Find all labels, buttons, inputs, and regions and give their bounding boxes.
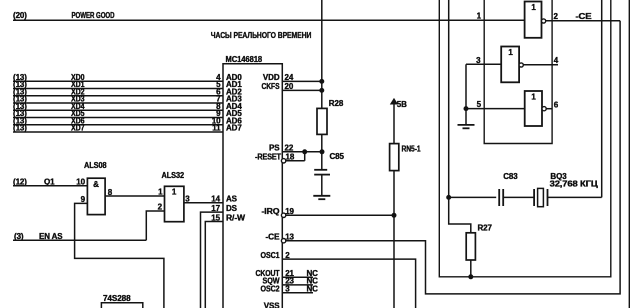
wire XD7 to U1 pin xyxy=(13,131,223,133)
junction PS/-RESET xyxy=(303,150,307,154)
svg-text:PS: PS xyxy=(269,144,280,153)
wire C83 to BQ3 xyxy=(503,196,534,198)
wire R/-W pin 15 from bottom xyxy=(205,222,223,308)
inversion bubble -CE xyxy=(281,239,285,243)
wire XD3 to U1 pin xyxy=(13,102,223,104)
wire CKOUT pin 21 NC xyxy=(282,276,313,278)
wire U2.1 output -CE xyxy=(546,20,620,22)
svg-text:ЧАСЫ РЕАЛЬНОГО ВРЕМЕНИ: ЧАСЫ РЕАЛЬНОГО ВРЕМЕНИ xyxy=(211,30,311,40)
wire OSC1 pin 2 xyxy=(282,259,415,308)
wire -RESET pin 18 xyxy=(286,160,305,162)
svg-text:-CE: -CE xyxy=(576,12,593,21)
svg-text:OSC2: OSC2 xyxy=(261,285,281,294)
svg-text:1: 1 xyxy=(531,93,536,102)
svg-text:OSC1: OSC1 xyxy=(261,251,281,260)
inverter group box xyxy=(484,0,552,144)
junction R27/bottom rail xyxy=(469,275,473,279)
wire PS pin 22 to R28 bottom xyxy=(282,151,322,153)
svg-text:32,768 КГЦ: 32,768 КГЦ xyxy=(550,180,598,189)
wire XD4 to U1 pin xyxy=(13,109,223,111)
wire R27 to inner box bottom xyxy=(470,260,472,277)
wire XD2 to U1 pin xyxy=(13,95,223,97)
inversion bubble U2.3 xyxy=(542,107,546,111)
svg-text:RN5-1: RN5-1 xyxy=(402,144,422,153)
wire crystal net vertical from top xyxy=(448,0,450,197)
svg-text:-RESET: -RESET xyxy=(255,153,281,162)
inversion bubble -RESET xyxy=(281,159,285,163)
svg-text:AS: AS xyxy=(226,195,238,204)
wire pin3 down to pin5 xyxy=(465,64,467,108)
svg-text:MC146818: MC146818 xyxy=(226,55,263,64)
wire C85 to ground xyxy=(321,175,323,196)
svg-text:(20): (20) xyxy=(13,11,27,20)
wire ALS08 pin 9 stair to bottom xyxy=(75,203,164,308)
wire -IRQ pin 19 to RN5-1 xyxy=(286,214,394,216)
inversion bubble U2.2 xyxy=(519,63,523,67)
wire junction to ground xyxy=(465,109,467,125)
svg-text:ALS32: ALS32 xyxy=(162,171,185,180)
wire -CE net pin13 to inverter output xyxy=(286,21,620,294)
wire RN5-1 down past -IRQ junction xyxy=(393,171,395,308)
inverter U2.1 xyxy=(525,2,542,38)
svg-text:1: 1 xyxy=(508,48,513,57)
wire U2.3 output pin 6 xyxy=(546,108,552,110)
ground under C85 xyxy=(321,194,323,197)
wire VDD pin 24 xyxy=(282,80,322,82)
wire XD5 to U1 pin xyxy=(13,117,223,119)
wire EN AS xyxy=(13,239,146,241)
dashed-module inner box (oscillator block) xyxy=(439,0,611,277)
svg-text:6: 6 xyxy=(554,100,559,109)
wire U2.2 input pin 3 xyxy=(466,63,501,65)
wire XD0 to U1 pin xyxy=(13,80,223,82)
wire crystal right vertical from top xyxy=(601,0,603,197)
wire R28 to C85 xyxy=(321,134,323,169)
svg-text:DS: DS xyxy=(226,204,238,213)
resistor R28 xyxy=(317,108,327,134)
wire DS pin 17 from bottom xyxy=(201,212,224,308)
IC 74S288 body (cut off) xyxy=(101,303,142,308)
OR gate D2 ALS32 xyxy=(165,186,184,221)
outer frame right vertical xyxy=(628,0,630,308)
wire CKFS pin 20 xyxy=(282,89,322,91)
wire XD1 to U1 pin xyxy=(13,88,223,90)
inversion bubble -IRQ xyxy=(281,213,285,217)
wire XD6 to U1 pin xyxy=(13,124,223,126)
wire +5B to RN5-1 xyxy=(393,100,395,144)
inversion bubble U2.1 xyxy=(542,19,546,23)
inverter U2.3 xyxy=(525,91,542,126)
junction CKFS/R28 net xyxy=(320,88,324,92)
svg-text:1: 1 xyxy=(172,188,177,197)
ground at inverter inputs xyxy=(465,123,467,126)
svg-text:74S288: 74S288 xyxy=(103,294,131,303)
wire VDD net vertical from top xyxy=(321,0,323,108)
svg-text:POWER GOOD: POWER GOOD xyxy=(72,11,115,20)
junction -IRQ/RN5-1 xyxy=(392,213,396,217)
svg-text:C83: C83 xyxy=(503,172,518,181)
svg-text:5B: 5B xyxy=(397,100,407,109)
junction crystal/R27 xyxy=(447,195,451,199)
wire to C83 xyxy=(449,196,497,198)
AND gate D1 ALS08 xyxy=(87,178,105,214)
inverter U2.2 xyxy=(501,47,519,83)
svg-text:ALS08: ALS08 xyxy=(84,161,107,170)
svg-text:R28: R28 xyxy=(329,99,344,108)
junction PS/R28/C85 xyxy=(320,150,324,154)
wire BQ3 to right vertical xyxy=(548,196,602,198)
svg-text:2: 2 xyxy=(554,12,559,21)
wire POWER GOOD to inverter U2.1 input pin 1 xyxy=(13,19,525,21)
wire ALS08 out pin 8 to ALS32 pin 1 xyxy=(105,195,164,197)
capacitor C85 xyxy=(314,169,327,171)
wire SQW pin 23 NC xyxy=(282,284,313,286)
capacitor C83 xyxy=(498,189,500,206)
junction pin5/ground xyxy=(464,107,468,111)
power arrow +5B xyxy=(391,99,398,104)
svg-text:NC: NC xyxy=(307,285,319,294)
svg-text:VSS: VSS xyxy=(264,302,280,308)
resistor RN5-1 xyxy=(390,144,399,171)
svg-text:4: 4 xyxy=(554,56,559,65)
svg-text:-IRQ: -IRQ xyxy=(262,207,280,216)
wire U2.2 output pin 4 xyxy=(523,64,558,66)
svg-text:CKFS: CKFS xyxy=(262,82,281,91)
svg-text:1: 1 xyxy=(531,3,536,12)
svg-text:AD7: AD7 xyxy=(226,124,242,133)
wire U2.3 input pin 5 xyxy=(466,108,525,110)
wire -RESET up to PS net xyxy=(304,152,306,161)
junction VDD/R28 net xyxy=(320,79,324,83)
svg-text:1: 1 xyxy=(477,11,482,20)
svg-text:11: 11 xyxy=(212,124,221,133)
wire EN AS up to ALS32 pin 2 xyxy=(146,211,164,240)
svg-text:3: 3 xyxy=(185,195,190,204)
svg-text:-CE: -CE xyxy=(266,233,281,242)
svg-text:&: & xyxy=(93,180,99,189)
crystal BQ3 xyxy=(533,189,535,206)
svg-text:R27: R27 xyxy=(478,223,493,232)
svg-text:VDD: VDD xyxy=(263,73,280,82)
svg-text:10: 10 xyxy=(76,177,85,186)
svg-text:R/-W: R/-W xyxy=(226,213,246,222)
wire junction to R27 xyxy=(449,197,471,232)
wire OSC2 pin 3 NC xyxy=(282,292,313,294)
wire AS from ALS32 output xyxy=(184,202,223,204)
svg-text:C85: C85 xyxy=(330,152,345,161)
resistor R27 xyxy=(466,233,475,260)
svg-text:1: 1 xyxy=(158,188,163,197)
wire Q1 to ALS08 pin 10 xyxy=(13,185,87,187)
IC U1 MC146818 body xyxy=(223,64,282,308)
